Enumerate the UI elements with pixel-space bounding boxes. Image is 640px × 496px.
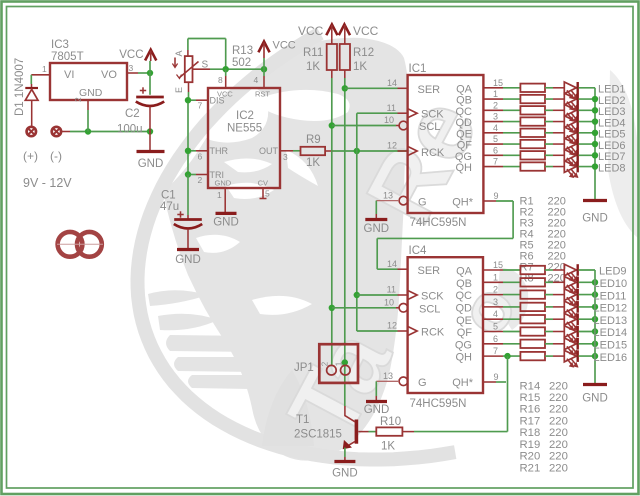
- svg-text:74HC595N: 74HC595N: [410, 217, 467, 229]
- svg-text:A: A: [174, 50, 184, 56]
- svg-text:1K: 1K: [381, 441, 395, 453]
- svg-text:VCC: VCC: [353, 24, 379, 38]
- svg-text:2: 2: [73, 97, 83, 102]
- svg-text:RST: RST: [255, 90, 270, 99]
- svg-text:LED16: LED16: [594, 352, 628, 364]
- svg-text:GND: GND: [332, 468, 358, 480]
- svg-text:LED12: LED12: [594, 303, 628, 315]
- svg-text:LED11: LED11: [594, 290, 627, 302]
- svg-text:12: 12: [387, 141, 397, 151]
- svg-text:QB: QB: [456, 278, 472, 290]
- svg-text:GND: GND: [582, 213, 608, 225]
- svg-text:LED3: LED3: [598, 106, 626, 118]
- svg-text:R11: R11: [303, 47, 323, 59]
- svg-text:14: 14: [387, 259, 397, 269]
- svg-text:SCL: SCL: [419, 303, 440, 315]
- svg-text:3: 3: [493, 297, 498, 307]
- svg-text:4: 4: [493, 309, 498, 319]
- svg-text:9: 9: [494, 372, 499, 382]
- svg-text:3: 3: [129, 63, 134, 73]
- svg-text:QD: QD: [456, 303, 473, 315]
- svg-text:(+): (+): [23, 149, 38, 163]
- svg-text:E: E: [174, 87, 184, 93]
- svg-text:QH*: QH*: [452, 196, 474, 208]
- svg-text:220: 220: [549, 439, 568, 451]
- svg-text:7: 7: [493, 346, 498, 356]
- svg-text:7: 7: [493, 157, 498, 167]
- svg-text:QE: QE: [456, 128, 472, 140]
- svg-text:LED10: LED10: [594, 278, 628, 290]
- svg-text:6: 6: [198, 152, 203, 162]
- svg-text:R21: R21: [520, 462, 541, 474]
- svg-text:2: 2: [493, 100, 498, 110]
- svg-text:1: 1: [42, 64, 47, 74]
- svg-text:LED7: LED7: [598, 151, 626, 163]
- svg-text:12: 12: [387, 321, 397, 331]
- svg-text:LED2: LED2: [598, 95, 626, 107]
- svg-text:6: 6: [493, 334, 498, 344]
- svg-text:220: 220: [549, 415, 568, 427]
- svg-text:1K: 1K: [353, 61, 367, 73]
- svg-text:220: 220: [549, 392, 568, 404]
- svg-text:GND: GND: [79, 87, 103, 99]
- svg-text:CV: CV: [258, 179, 268, 188]
- svg-text:GND: GND: [582, 393, 608, 405]
- svg-text:74HC595N: 74HC595N: [410, 398, 467, 410]
- svg-text:LED13: LED13: [594, 315, 628, 327]
- svg-text:R12: R12: [353, 47, 374, 59]
- svg-text:QC: QC: [456, 290, 473, 302]
- svg-text:LED8: LED8: [598, 162, 626, 174]
- svg-text:2: 2: [321, 361, 330, 366]
- svg-text:R18: R18: [520, 427, 541, 439]
- svg-text:SCK: SCK: [421, 291, 444, 303]
- svg-text:R16: R16: [520, 404, 541, 416]
- svg-text:15: 15: [493, 78, 503, 88]
- svg-text:GND: GND: [175, 254, 201, 266]
- svg-text:7: 7: [198, 101, 203, 111]
- svg-text:LED4: LED4: [598, 117, 626, 129]
- svg-text:VO: VO: [101, 69, 117, 81]
- svg-text:1: 1: [334, 361, 343, 366]
- svg-text:JP1: JP1: [294, 362, 314, 374]
- svg-text:6: 6: [493, 145, 498, 155]
- svg-text:DIS: DIS: [210, 96, 225, 106]
- svg-text:10: 10: [384, 297, 394, 307]
- svg-text:SER: SER: [418, 265, 441, 277]
- svg-text:4: 4: [493, 123, 498, 133]
- svg-text:QA: QA: [456, 83, 473, 95]
- svg-text:R9: R9: [306, 134, 321, 146]
- svg-text:GND: GND: [364, 404, 390, 416]
- svg-text:LED15: LED15: [594, 340, 628, 352]
- svg-text:D1 1N4007: D1 1N4007: [14, 58, 26, 116]
- svg-text:RCK: RCK: [421, 147, 445, 159]
- svg-text:5: 5: [265, 189, 270, 199]
- svg-text:1: 1: [493, 272, 498, 282]
- svg-text:8: 8: [218, 75, 223, 85]
- svg-text:220: 220: [549, 380, 568, 392]
- svg-text:(-): (-): [50, 149, 62, 163]
- svg-text:15: 15: [493, 260, 503, 270]
- svg-text:4: 4: [254, 75, 259, 85]
- svg-text:QC: QC: [456, 106, 473, 118]
- svg-text:LED1: LED1: [598, 84, 626, 96]
- svg-text:GND: GND: [364, 223, 390, 235]
- svg-text:QF: QF: [457, 327, 473, 339]
- svg-text:RCK: RCK: [421, 327, 445, 339]
- svg-text:NE555: NE555: [227, 123, 262, 135]
- svg-text:G: G: [418, 377, 427, 389]
- svg-text:7805T: 7805T: [51, 51, 84, 63]
- svg-text:R20: R20: [520, 451, 541, 463]
- svg-text:GND: GND: [213, 217, 239, 229]
- svg-text:2SC1815: 2SC1815: [294, 429, 342, 441]
- svg-text:1: 1: [217, 190, 222, 200]
- svg-text:14: 14: [387, 78, 397, 88]
- svg-text:1: 1: [493, 89, 498, 99]
- svg-text:QG: QG: [455, 151, 472, 163]
- svg-text:2: 2: [198, 175, 203, 185]
- svg-text:220: 220: [549, 404, 568, 416]
- svg-text:C1: C1: [161, 190, 176, 202]
- svg-text:220: 220: [549, 427, 568, 439]
- svg-text:11: 11: [387, 103, 396, 113]
- svg-text:OUT: OUT: [259, 146, 279, 156]
- svg-text:VCC: VCC: [273, 40, 296, 52]
- svg-text:11: 11: [387, 285, 396, 295]
- svg-text:SCL: SCL: [419, 121, 440, 133]
- svg-text:GND: GND: [215, 179, 232, 188]
- svg-text:5: 5: [493, 322, 498, 332]
- svg-text:SCK: SCK: [421, 109, 444, 121]
- svg-text:VCC: VCC: [119, 49, 143, 61]
- svg-text:QG: QG: [455, 339, 472, 351]
- svg-text:R14: R14: [520, 380, 541, 392]
- svg-text:THR: THR: [210, 146, 229, 156]
- svg-text:QH: QH: [456, 352, 473, 364]
- svg-text:2: 2: [493, 285, 498, 295]
- svg-text:220: 220: [549, 462, 568, 474]
- svg-text:47u: 47u: [160, 201, 179, 213]
- svg-text:R10: R10: [380, 416, 401, 428]
- svg-text:3: 3: [283, 152, 288, 162]
- svg-text:VI: VI: [64, 69, 74, 81]
- svg-text:QE: QE: [456, 315, 472, 327]
- svg-text:LED5: LED5: [598, 129, 626, 141]
- svg-text:502: 502: [232, 57, 251, 69]
- svg-text:LED14: LED14: [594, 327, 628, 339]
- svg-text:VCC: VCC: [298, 24, 324, 38]
- svg-text:QD: QD: [456, 117, 473, 129]
- svg-text:QB: QB: [456, 95, 472, 107]
- svg-text:R13: R13: [232, 45, 253, 57]
- svg-text:13: 13: [383, 190, 393, 200]
- svg-text:C2: C2: [125, 108, 140, 120]
- svg-text:IC1: IC1: [409, 63, 427, 75]
- svg-text:QF: QF: [457, 140, 473, 152]
- svg-text:IC4: IC4: [409, 245, 428, 257]
- svg-text:QA: QA: [456, 266, 473, 278]
- svg-text:5: 5: [493, 134, 498, 144]
- svg-text:T1: T1: [296, 414, 309, 426]
- svg-text:220: 220: [549, 451, 568, 463]
- svg-text:R17: R17: [520, 415, 541, 427]
- svg-text:LED9: LED9: [599, 266, 627, 278]
- svg-text:10: 10: [384, 115, 394, 125]
- svg-text:QH*: QH*: [452, 377, 474, 389]
- svg-text:1K: 1K: [306, 61, 320, 73]
- svg-text:IC3: IC3: [51, 39, 69, 51]
- svg-text:R19: R19: [520, 439, 541, 451]
- svg-text:QH: QH: [456, 162, 473, 174]
- svg-text:GND: GND: [138, 158, 164, 170]
- svg-text:9: 9: [494, 191, 499, 201]
- svg-text:13: 13: [383, 371, 393, 381]
- svg-text:G: G: [418, 196, 427, 208]
- svg-text:SER: SER: [418, 84, 441, 96]
- svg-text:IC2: IC2: [236, 110, 254, 122]
- svg-text:LED6: LED6: [598, 140, 626, 152]
- svg-text:R15: R15: [520, 392, 541, 404]
- svg-text:3: 3: [493, 112, 498, 122]
- svg-text:9V - 12V: 9V - 12V: [23, 176, 72, 190]
- svg-text:100u: 100u: [117, 124, 143, 136]
- svg-text:1K: 1K: [306, 157, 320, 169]
